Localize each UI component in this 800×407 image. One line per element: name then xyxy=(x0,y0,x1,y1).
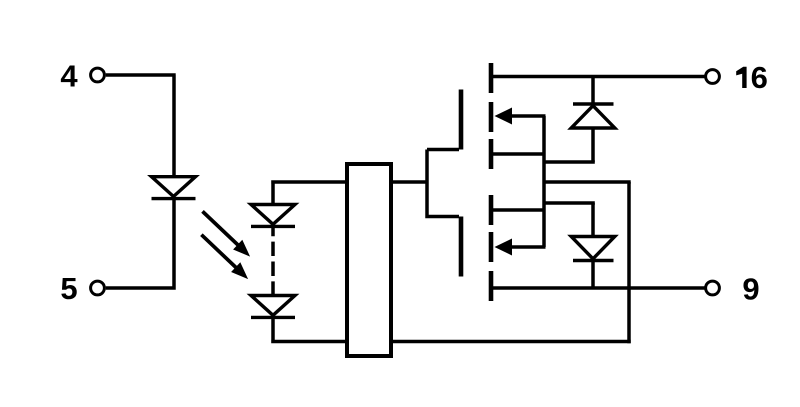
pin 5 terminal xyxy=(91,281,105,295)
pin 9 terminal xyxy=(706,281,720,295)
dashed wire between photodiodes xyxy=(271,226,275,296)
wire pin4 to LED top xyxy=(106,75,176,177)
Q2 source stub xyxy=(493,208,546,212)
MOSFET Q1 gate electrode xyxy=(459,90,464,150)
photodiode PD2 xyxy=(251,296,295,318)
MOSFET Q1 drain segment xyxy=(489,63,494,93)
Q1 body arrow xyxy=(495,108,546,125)
bottom return wire xyxy=(391,340,631,344)
right rail wire xyxy=(627,182,631,343)
pin 4 terminal xyxy=(91,68,105,82)
svg-text:5: 5 xyxy=(60,271,77,306)
MOSFET Q2 source segment xyxy=(489,195,494,225)
MOSFET Q1 source segment xyxy=(489,139,494,169)
wire photodiode bottom to control block xyxy=(271,317,347,343)
gate feed wire from control block xyxy=(391,150,459,219)
wire LED to pin5 xyxy=(106,199,176,290)
Q1 source stub xyxy=(493,152,546,156)
wire bus to right rail xyxy=(544,180,631,184)
source bus wire xyxy=(542,116,546,247)
drain rail to pin 16 xyxy=(491,75,706,79)
Q2 body arrow xyxy=(495,239,546,256)
wire bus to body diode D2 xyxy=(544,160,595,164)
light arrow 2 xyxy=(201,235,248,279)
light arrow 1 xyxy=(203,211,251,256)
wire photodiode top to control block xyxy=(271,180,347,205)
body diode D3 xyxy=(571,203,615,288)
source rail to pin 9 xyxy=(491,286,706,290)
pin label 16 digit 1 xyxy=(736,67,746,88)
wire bus to body diode D3 xyxy=(544,201,595,205)
MOSFET Q2 drain segment xyxy=(489,271,494,301)
svg-text:6: 6 xyxy=(751,60,768,95)
MOSFET Q2 body segment xyxy=(489,232,494,262)
MOSFET Q2 gate electrode xyxy=(459,217,464,277)
pin 16 terminal xyxy=(706,70,720,84)
control circuit block U1 xyxy=(347,164,391,356)
body diode D2 xyxy=(571,77,615,163)
photodiode PD1 xyxy=(251,205,295,227)
svg-text:4: 4 xyxy=(60,59,78,94)
LED D1 (emitter) xyxy=(152,177,196,199)
svg-text:9: 9 xyxy=(742,271,759,306)
MOSFET Q1 body segment xyxy=(489,102,494,132)
